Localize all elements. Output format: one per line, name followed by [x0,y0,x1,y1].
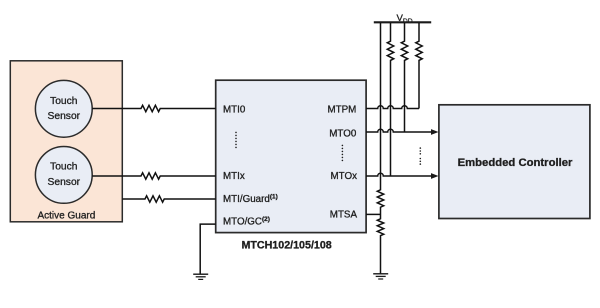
svg-text:MTIx: MTIx [223,171,245,182]
svg-text:MTI0: MTI0 [223,105,246,116]
svg-text:MTCH102/105/108: MTCH102/105/108 [241,240,331,252]
svg-text:Active Guard: Active Guard [37,211,95,222]
svg-text:Embedded Controller: Embedded Controller [458,157,573,169]
svg-text:MTO0: MTO0 [329,129,357,140]
svg-text:Sensor: Sensor [47,111,80,122]
svg-text:MTPM: MTPM [327,105,356,116]
svg-text:MTSA: MTSA [330,210,358,221]
svg-text:Touch: Touch [50,96,78,107]
svg-text:Touch: Touch [50,162,78,173]
svg-text:MTOx: MTOx [331,171,358,182]
svg-text:Sensor: Sensor [47,177,80,188]
svg-text:MTI/Guard(1): MTI/Guard(1) [223,194,278,205]
